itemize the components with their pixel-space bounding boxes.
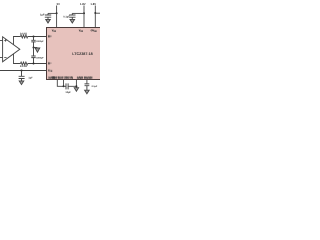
- ground under C4: [46, 19, 51, 23]
- capacitor C8 0.1uF: [85, 84, 90, 90]
- pin stub bypass right: [86, 80, 88, 84]
- capacitor C2 3300pF: [31, 48, 35, 64]
- capacitor C4 1uF on 5V: [45, 13, 51, 19]
- wire 5V to VDD pin: [56, 6, 58, 28]
- op-amp U2 fully differential amplifier: [3, 37, 20, 62]
- svg-text:1.8V: 1.8V: [80, 2, 86, 6]
- svg-text:10µF: 10µF: [65, 91, 71, 94]
- wire R2 to IC IN-: [28, 63, 47, 65]
- svg-text:1µF: 1µF: [40, 14, 45, 17]
- wire 1.8V to OVDD pin: [94, 6, 96, 28]
- wire input+: [0, 40, 3, 42]
- node junction REFIN: [63, 85, 65, 87]
- svg-text:LTC2387-18: LTC2387-18: [72, 52, 92, 56]
- resistor R1 24.9 ohm: [21, 35, 28, 38]
- ground under C8: [85, 90, 90, 94]
- capacitor C1 3300pF: [31, 37, 35, 48]
- node junction 1.8V: [83, 12, 85, 14]
- svg-text:24.9Ω: 24.9Ω: [20, 65, 27, 68]
- op-amp minus input mark: [4, 57, 6, 59]
- wire 1.8V left branch: [72, 12, 84, 14]
- capacitor C6 0.1uF on 1.8V: [69, 13, 75, 19]
- wire op-amp bottom output stub: [14, 54, 21, 64]
- node junction on IN- line: [33, 63, 35, 65]
- ground under GND pin: [74, 88, 78, 92]
- node junction GND: [75, 85, 77, 87]
- wire R1 to IC IN+: [28, 36, 47, 38]
- wire OVDD branch to edge: [95, 12, 100, 14]
- node junction on IN+ line: [33, 36, 35, 38]
- svg-text:3300pF: 3300pF: [36, 57, 44, 60]
- pin stub REFIN: [63, 80, 65, 87]
- wire 5V left branch: [48, 12, 57, 14]
- node junction VCM: [21, 70, 23, 72]
- IC U1 LTC2387-18 body: [47, 28, 104, 80]
- wire 1.8V to VDD pin: [83, 6, 85, 28]
- ground under C3: [19, 81, 24, 85]
- wire op-amp top output stub: [14, 37, 21, 45]
- op-amp plus input mark: [4, 39, 6, 41]
- svg-text:0.1µF: 0.1µF: [92, 85, 98, 88]
- resistor R2 24.9 ohm: [21, 62, 28, 65]
- svg-text:24.9Ω: 24.9Ω: [20, 32, 27, 35]
- wire input-: [0, 57, 3, 59]
- svg-text:3300pF: 3300pF: [36, 40, 44, 43]
- pin stub REFBUF: [57, 80, 63, 87]
- svg-text:1µF: 1µF: [28, 77, 33, 80]
- capacitor C3 1uF on VCM: [19, 71, 25, 82]
- capacitor C7 10uF reference bypass: [64, 83, 77, 89]
- node junction OVDD: [94, 12, 96, 14]
- wire VCM line: [0, 70, 47, 72]
- wire to mid ground: [34, 47, 38, 49]
- svg-text:5V: 5V: [57, 2, 61, 6]
- node junction 5V: [56, 12, 58, 14]
- node junction mid caps: [33, 47, 35, 49]
- pin stub GND: [75, 80, 77, 88]
- ground under C6: [70, 19, 75, 23]
- ground mid: [35, 48, 40, 52]
